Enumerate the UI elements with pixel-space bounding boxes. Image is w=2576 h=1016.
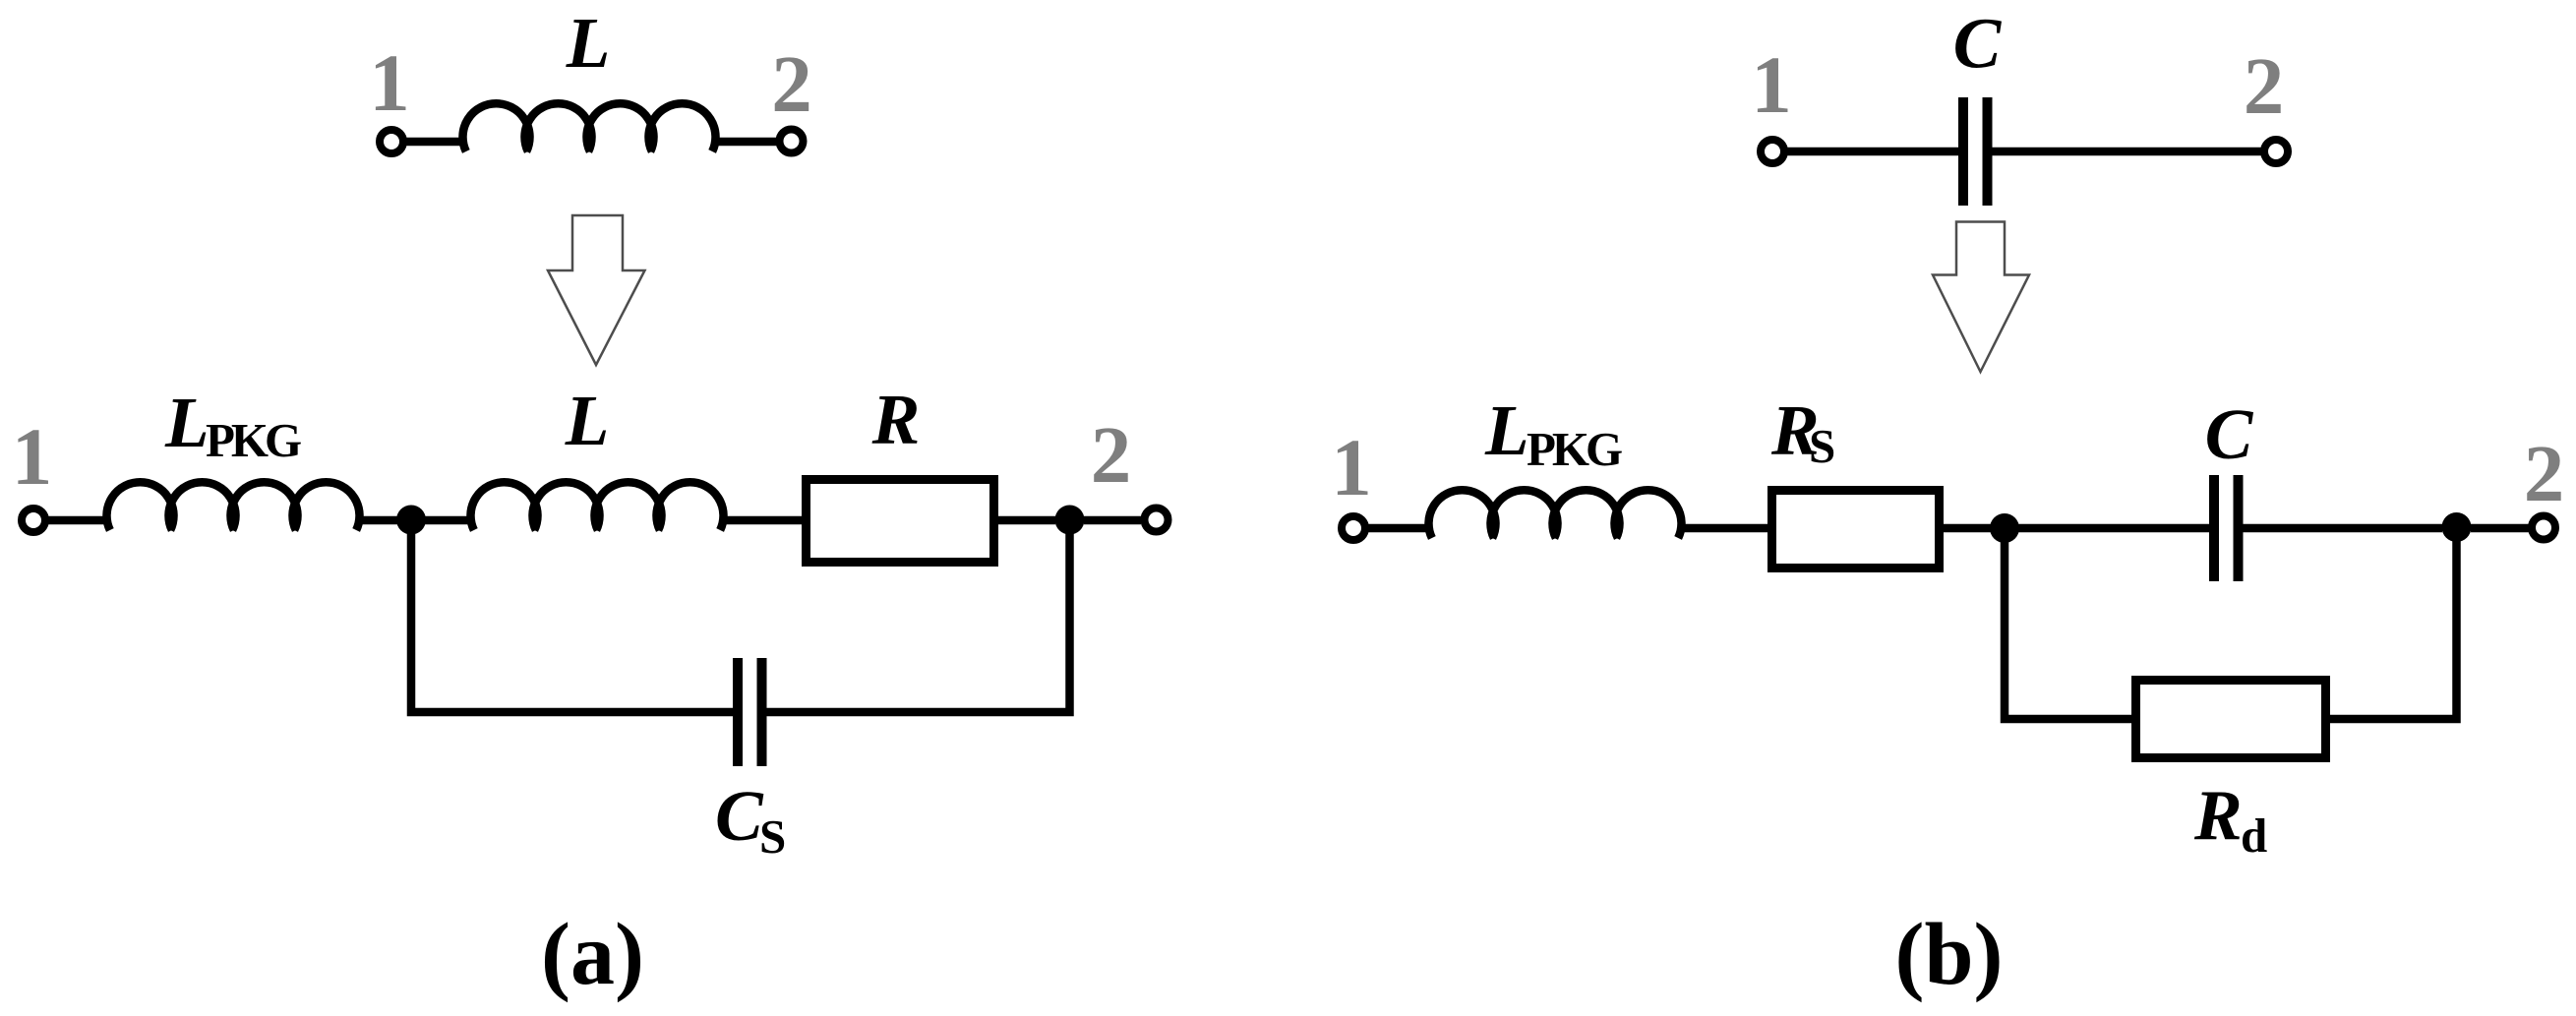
svg-text:2: 2	[1091, 409, 1132, 500]
svg-text:(a): (a)	[541, 906, 644, 1003]
wire node D to port 2	[2471, 524, 2529, 533]
wire node A to inductor L	[425, 516, 474, 525]
svg-text:1: 1	[12, 411, 53, 502]
capacitor C	[2214, 475, 2239, 581]
junction node B	[1055, 506, 1085, 535]
terminal port 2 (open circle)	[780, 130, 804, 153]
svg-text:PKG: PKG	[206, 413, 301, 467]
resistor Rd (discharge resistance)	[2136, 681, 2326, 758]
terminal port 2 (open circle)	[1145, 508, 1168, 532]
transformation arrow (b)	[1933, 222, 2029, 373]
svg-text:R: R	[2193, 776, 2243, 856]
wire node B to port 2	[1084, 516, 1141, 525]
wire resistor RS to node C	[1944, 524, 1991, 533]
svg-text:PKG: PKG	[1527, 422, 1622, 476]
wire LPKG to node A	[357, 516, 397, 525]
wire node D down to bottom rail	[2329, 539, 2457, 719]
wire port 1 to inductor LPKG	[1368, 524, 1432, 533]
terminal port 1 (open circle)	[1342, 516, 1365, 540]
terminal port 1 (open circle)	[22, 508, 45, 532]
wire inductor L to resistor R	[721, 516, 803, 525]
svg-text:C: C	[1953, 4, 2003, 84]
wire node C to capacitor C	[2018, 524, 2209, 533]
inductor LPKG (package inductance)	[107, 482, 360, 530]
terminal port 1 (open circle)	[1761, 140, 1784, 163]
terminal port 1 (open circle)	[380, 130, 403, 153]
svg-text:d: d	[2241, 808, 2267, 863]
svg-text:C: C	[715, 776, 764, 856]
wire inductor L to port 2	[713, 138, 777, 147]
wire node A down to bottom rail	[411, 531, 733, 712]
wire capacitor C to node D	[2244, 524, 2443, 533]
wire port 1 to capacitor C	[1787, 148, 1958, 156]
svg-text:2: 2	[2524, 428, 2565, 518]
junction node D	[2442, 512, 2472, 542]
svg-text:2: 2	[771, 38, 812, 129]
junction node A	[396, 506, 426, 535]
svg-text:S: S	[1809, 419, 1834, 473]
svg-text:L: L	[565, 381, 610, 460]
svg-text:L: L	[566, 3, 611, 83]
capacitor CS (parasitic shunt capacitance)	[738, 658, 762, 766]
svg-text:L: L	[1484, 390, 1529, 470]
value label RS	[1770, 390, 1834, 473]
inductor L (ideal symbol)	[463, 103, 716, 151]
svg-text:2: 2	[2244, 40, 2285, 131]
wire resistor R to node B	[998, 516, 1055, 525]
value label CS	[715, 776, 785, 864]
terminal port 2 (open circle)	[2264, 140, 2288, 163]
inductor LPKG (package inductance)	[1429, 490, 1682, 538]
wire node B down to bottom rail	[767, 531, 1070, 712]
svg-text:L: L	[164, 383, 210, 462]
svg-text:(b): (b)	[1895, 906, 2004, 1003]
inductor L	[471, 482, 724, 530]
junction node C	[1990, 513, 2019, 543]
svg-text:1: 1	[1751, 39, 1792, 130]
svg-text:R: R	[871, 380, 921, 459]
wire capacitor C to port 2	[1993, 148, 2262, 156]
value label LPKG	[1484, 390, 1622, 476]
capacitor C (ideal symbol)	[1963, 97, 1988, 206]
resistor RS (series resistance)	[1772, 491, 1940, 568]
svg-text:S: S	[759, 809, 785, 864]
wire port 1 to inductor L	[406, 138, 466, 147]
transformation arrow (a)	[548, 215, 645, 365]
wire LPKG to resistor RS	[1679, 524, 1768, 533]
svg-text:1: 1	[369, 37, 410, 128]
value label Rd	[2193, 776, 2267, 864]
wire port 1 to inductor LPKG	[48, 516, 110, 525]
resistor R (series resistance)	[807, 480, 994, 563]
value label LPKG	[164, 383, 301, 467]
wire node C down to bottom rail	[2005, 539, 2132, 719]
svg-text:C: C	[2205, 394, 2254, 474]
terminal port 2 (open circle)	[2532, 516, 2555, 540]
svg-text:1: 1	[1331, 422, 1372, 512]
